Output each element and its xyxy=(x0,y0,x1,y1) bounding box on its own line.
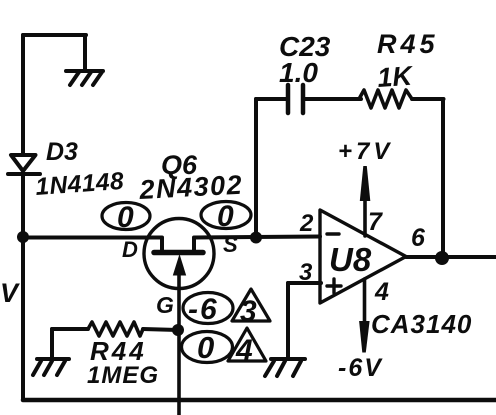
wire main left segment xyxy=(23,236,162,240)
wire diode to bottom xyxy=(21,174,25,399)
capacitor C23 xyxy=(288,85,303,113)
label plus xyxy=(327,279,341,293)
svg-text:3: 3 xyxy=(240,295,257,328)
op-amp U8 xyxy=(320,210,406,303)
label V xyxy=(0,278,20,308)
arrow +7V xyxy=(360,166,371,201)
ground R44 xyxy=(33,359,69,375)
ground pin3 xyxy=(265,359,305,376)
transistor Q6 xyxy=(144,219,214,289)
node junction feedback tap xyxy=(250,232,262,244)
label Q6 xyxy=(161,150,198,180)
svg-text:1MEG: 1MEG xyxy=(87,362,159,389)
gate arrowhead xyxy=(173,254,186,276)
label R44 xyxy=(90,336,147,366)
svg-text:R45: R45 xyxy=(377,29,439,59)
wire top-left vertical to diode xyxy=(21,35,25,154)
wire gate vertical xyxy=(177,268,181,415)
label D3 xyxy=(46,138,78,166)
arrow -6V xyxy=(359,321,370,353)
svg-text:D3: D3 xyxy=(46,138,78,166)
test point triangle 3 xyxy=(232,289,270,321)
wire pin3 vertical xyxy=(286,283,290,359)
wire bottom bus xyxy=(23,398,496,403)
wire output xyxy=(406,255,496,259)
svg-text:1K: 1K xyxy=(376,60,415,93)
label 4 tp xyxy=(235,334,253,367)
svg-text:V: V xyxy=(0,278,20,308)
wire pin3 horizontal xyxy=(288,281,321,285)
svg-text:D: D xyxy=(122,237,138,262)
svg-text:2: 2 xyxy=(299,210,314,237)
label C23 xyxy=(279,31,331,62)
test point ellipse 0 at drain xyxy=(102,203,150,230)
wire feedback left vertical xyxy=(254,99,258,237)
label 3 tp xyxy=(240,295,257,328)
resistor R44 xyxy=(88,322,143,336)
node gate junction xyxy=(172,324,184,336)
label 0 source xyxy=(217,200,234,233)
label pin 4 xyxy=(374,278,389,306)
label CA3140 xyxy=(371,309,472,339)
svg-text:-6V: -6V xyxy=(338,354,383,382)
wire pin4 xyxy=(363,279,367,325)
label U8 xyxy=(329,241,372,278)
label pin 6 xyxy=(411,224,426,252)
svg-text:-6: -6 xyxy=(188,293,219,326)
wire feedback top left xyxy=(256,97,288,101)
test point ellipse 0 gate xyxy=(182,332,233,363)
test point ellipse 0 at source xyxy=(201,202,251,229)
svg-text:1N4148: 1N4148 xyxy=(35,168,125,201)
svg-text:0: 0 xyxy=(197,330,214,365)
label 2N4302 xyxy=(138,170,244,205)
label pin 3 xyxy=(299,259,313,286)
label R45 xyxy=(377,29,439,59)
wire top-left horizontal xyxy=(23,33,86,37)
label G xyxy=(156,292,174,318)
wire feedback right vertical xyxy=(441,99,445,257)
node output junction xyxy=(435,251,449,265)
wire ground stub top xyxy=(83,35,87,71)
svg-text:6: 6 xyxy=(411,224,426,252)
label 1K xyxy=(376,60,415,93)
test point ellipse -6 xyxy=(183,293,233,324)
label +7V xyxy=(338,138,393,165)
svg-text:0: 0 xyxy=(217,200,234,233)
resistor R45 xyxy=(359,90,412,108)
svg-text:1.0: 1.0 xyxy=(279,57,318,88)
svg-text:0: 0 xyxy=(117,201,134,234)
label D xyxy=(122,237,138,262)
svg-text:S: S xyxy=(223,232,238,257)
svg-text:U8: U8 xyxy=(329,241,372,278)
label 1.0 xyxy=(279,57,318,88)
svg-text:CA3140: CA3140 xyxy=(371,309,472,339)
svg-text:4: 4 xyxy=(235,334,253,367)
svg-text:7: 7 xyxy=(368,208,383,236)
wire feedback top right xyxy=(412,97,444,101)
wire R44 right lead xyxy=(143,329,178,330)
ground top xyxy=(66,71,103,85)
node junction left xyxy=(17,231,29,243)
label -6V xyxy=(338,354,383,382)
wire main right segment xyxy=(194,237,320,238)
label S xyxy=(223,232,238,257)
test point triangle 4 xyxy=(228,328,266,361)
label 0 drain xyxy=(117,201,134,234)
wire pin7 xyxy=(363,199,367,236)
diode D3 xyxy=(8,155,40,174)
wire feedback top mid xyxy=(303,97,361,101)
wire R44 ground stub xyxy=(50,329,54,359)
svg-text:4: 4 xyxy=(374,278,389,306)
label pin 2 xyxy=(299,210,314,237)
label -6 xyxy=(188,293,219,326)
svg-text:G: G xyxy=(156,292,174,318)
wire R44 left lead xyxy=(52,327,88,331)
label 1MEG xyxy=(87,362,159,389)
svg-text:+7V: +7V xyxy=(338,138,393,165)
label 1N4148 xyxy=(35,168,125,201)
label 0 gate xyxy=(197,330,214,365)
label minus xyxy=(327,232,339,235)
label pin 7 xyxy=(368,208,383,236)
